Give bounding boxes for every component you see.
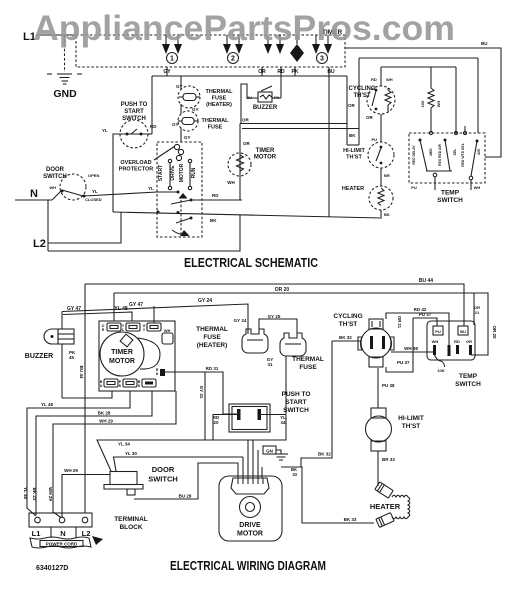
node 1 circled <box>167 53 178 64</box>
wire bus y76 <box>152 75 347 77</box>
resistor 100 ohm (schematic) <box>420 67 441 133</box>
svg-text:THERMAL: THERMAL <box>202 118 230 124</box>
wire RD drop to buzzer <box>280 67 282 98</box>
svg-text:AIR: AIR <box>477 149 481 155</box>
svg-text:SWITCH: SWITCH <box>122 116 146 122</box>
svg-text:TEMP: TEMP <box>441 190 460 197</box>
thermal fuse (schematic) <box>172 111 229 131</box>
svg-text:RD: RD <box>212 193 219 198</box>
svg-text:TH'ST: TH'ST <box>353 93 370 99</box>
timer contact diamond <box>290 35 304 62</box>
svg-text:ELECTRICAL WIRING DIAGRAM: ELECTRICAL WIRING DIAGRAM <box>170 558 326 573</box>
svg-text:WH 38: WH 38 <box>404 346 418 351</box>
buzzer (schematic) <box>246 86 279 111</box>
wire GY branch to timer tab <box>153 306 155 323</box>
svg-text:GY 24: GY 24 <box>198 298 212 304</box>
svg-text:GY 24: GY 24 <box>234 318 247 323</box>
svg-text:100: 100 <box>420 100 425 107</box>
push to start switch (schematic) <box>102 102 157 148</box>
wire PU37 <box>413 318 437 326</box>
svg-text:10K: 10K <box>437 368 444 373</box>
svg-text:YL 34: YL 34 <box>118 442 130 447</box>
wire YL48 bus <box>63 312 132 321</box>
svg-text:RED DELAY: RED DELAY <box>412 145 416 165</box>
svg-text:GY: GY <box>176 84 183 89</box>
svg-text:WH: WH <box>49 185 56 190</box>
svg-text:RD 31: RD 31 <box>206 366 219 371</box>
wire YL34 to door switch <box>97 415 286 472</box>
thermal fuse heater (schematic) <box>176 76 233 108</box>
svg-text:MOTOR: MOTOR <box>109 358 135 365</box>
wire BU28 from door switch <box>134 463 238 499</box>
overload protector label <box>119 144 184 172</box>
cycling thermostat (wiring) <box>333 313 394 367</box>
drive motor (wiring) <box>219 476 282 541</box>
wire OR20 to timer tab <box>113 293 115 321</box>
wire heater return <box>281 467 374 523</box>
svg-text:THERMAL: THERMAL <box>292 356 324 363</box>
svg-text:PUSH TO: PUSH TO <box>121 102 148 108</box>
svg-text:DOOR: DOOR <box>152 465 175 474</box>
wire drop to start switch <box>151 76 153 134</box>
svg-text:RES RED AIR: RES RED AIR <box>438 144 442 166</box>
svg-text:3: 3 <box>320 56 324 63</box>
svg-text:WH: WH <box>436 101 441 108</box>
wire color labels under timer <box>163 69 335 75</box>
wire mid vertical x347 <box>346 76 348 145</box>
svg-text:DEL: DEL <box>453 149 457 156</box>
wire start switch left to bus <box>213 415 238 441</box>
wire main lower bus y217 <box>113 212 382 218</box>
wire buzzer left <box>241 84 258 124</box>
timer motor (schematic) <box>227 148 277 185</box>
svg-text:BU 44: BU 44 <box>419 278 433 284</box>
wire PK to timer tab <box>62 391 112 398</box>
svg-text:L1: L1 <box>32 529 41 538</box>
wire fuse to motor box <box>180 128 182 142</box>
wires into drive motor connector <box>242 457 244 478</box>
svg-text:PU 37: PU 37 <box>397 360 410 365</box>
svg-text:YL: YL <box>92 189 98 194</box>
wire hi-limit to heater <box>380 168 382 186</box>
wire PK drop <box>294 67 296 76</box>
buzzer (wiring) <box>25 329 74 360</box>
svg-text:PU: PU <box>411 185 417 190</box>
svg-text:TIMER: TIMER <box>256 148 275 154</box>
wire motor to timer motor <box>191 199 242 201</box>
svg-text:BK: BK <box>384 212 390 217</box>
heater (schematic) <box>342 186 393 210</box>
svg-text:PU 37: PU 37 <box>419 312 432 317</box>
svg-text:OR 20: OR 20 <box>492 325 497 339</box>
wire BR33 hi-limit to heater <box>377 451 379 486</box>
wire OR bus y123 <box>240 123 347 125</box>
svg-text:GY 47: GY 47 <box>67 306 81 312</box>
wire GY47-GY24 bus <box>62 304 248 334</box>
power cord <box>30 536 103 548</box>
svg-text:45: 45 <box>69 355 75 360</box>
svg-text:34: 34 <box>280 420 286 425</box>
wire GY drop <box>166 67 168 76</box>
svg-text:YL 30: YL 30 <box>125 451 137 456</box>
svg-text:BK: BK <box>349 133 356 138</box>
svg-text:20: 20 <box>213 420 219 425</box>
wire WH29 timer branch <box>53 391 176 518</box>
wire BK32 to cycling <box>332 340 361 342</box>
wire OR20 bus <box>114 293 488 355</box>
svg-text:SWITCH: SWITCH <box>148 475 178 484</box>
svg-text:PUSH TO: PUSH TO <box>282 391 311 398</box>
node 3 circled <box>317 53 328 64</box>
svg-text:GY: GY <box>192 107 199 112</box>
wire start switch left drop <box>113 134 121 212</box>
wire BU44 top bus <box>85 284 464 326</box>
svg-text:BR: BR <box>384 173 390 178</box>
temp switch (wiring) <box>427 321 481 388</box>
svg-text:HEATER: HEATER <box>342 186 364 192</box>
wire RD31 timer to start switch <box>165 372 238 414</box>
svg-text:HI-LIMIT: HI-LIMIT <box>343 148 365 154</box>
svg-text:SWITCH: SWITCH <box>455 381 481 388</box>
wire hi-limit feed PU38 <box>377 368 379 408</box>
wire second right bus <box>359 57 478 59</box>
wire bottom bus <box>48 215 240 251</box>
svg-text:FUSE: FUSE <box>212 96 227 102</box>
svg-text:START: START <box>124 109 144 115</box>
hi-limit thermostat (schematic) <box>343 142 394 168</box>
svg-text:K: K <box>119 384 122 388</box>
wire door switch to motor box <box>84 192 178 196</box>
svg-text:THERMAL: THERMAL <box>206 89 234 95</box>
drive motor dashed box (schematic) <box>15 84 382 251</box>
temp switch (schematic) <box>409 126 485 204</box>
svg-text:BK: BK <box>210 218 217 223</box>
svg-text:GY: GY <box>184 135 191 140</box>
svg-text:MOTOR: MOTOR <box>179 163 185 182</box>
wire L1 to timer <box>36 34 76 36</box>
svg-text:PU: PU <box>371 137 377 142</box>
wire OR21 drop to temp switch <box>473 293 475 325</box>
svg-text:MOTOR: MOTOR <box>237 531 263 538</box>
svg-text:GY 25: GY 25 <box>268 314 281 319</box>
wire start switch right up <box>147 133 152 135</box>
svg-text:RD: RD <box>454 339 460 344</box>
svg-text:RED WTD DEL: RED WTD DEL <box>461 143 465 167</box>
svg-text:TEMP: TEMP <box>459 373 478 380</box>
svg-text:GY: GY <box>172 122 179 127</box>
thermal fuse heater (wiring) <box>196 318 268 353</box>
svg-text:PU 38: PU 38 <box>382 383 395 388</box>
svg-text:OR 20: OR 20 <box>275 287 290 293</box>
timer contact 4 <box>312 35 332 54</box>
svg-text:TIMER: TIMER <box>111 349 133 356</box>
svg-text:U: U <box>100 384 103 388</box>
svg-text:BU: BU <box>481 41 488 46</box>
wire BU drop <box>328 67 330 217</box>
wire YL30 to door switch <box>114 457 244 471</box>
wire fuse2 down to start switch <box>285 356 287 414</box>
svg-text:YL 48: YL 48 <box>114 306 127 312</box>
svg-text:BK 33: BK 33 <box>344 517 357 522</box>
svg-text:ELECTRICAL SCHEMATIC: ELECTRICAL SCHEMATIC <box>184 255 318 270</box>
svg-text:OR: OR <box>243 141 251 146</box>
svg-text:START: START <box>285 399 306 406</box>
svg-text:WH: WH <box>227 180 235 185</box>
svg-text:BK 32: BK 32 <box>339 335 352 340</box>
svg-text:OR: OR <box>242 118 250 123</box>
svg-text:33: 33 <box>292 472 297 477</box>
svg-text:HI-LIMIT: HI-LIMIT <box>398 415 424 422</box>
wire door switch down <box>47 200 49 251</box>
ground symbol GND <box>47 35 82 100</box>
svg-text:WH: WH <box>164 329 171 333</box>
svg-text:(HEATER): (HEATER) <box>206 102 232 108</box>
svg-text:R: R <box>102 328 105 332</box>
heater (wiring) <box>370 482 410 527</box>
svg-text:DRIVE: DRIVE <box>170 165 176 181</box>
svg-text:L2: L2 <box>33 238 46 250</box>
svg-text:TH'ST: TH'ST <box>346 155 362 161</box>
hi-limit thermostat (wiring) <box>366 408 424 451</box>
thermal fuse (wiring) <box>267 333 324 371</box>
wire buzzer PK45 down <box>61 344 63 398</box>
wire timer motor down <box>239 124 241 201</box>
svg-text:GY 31: GY 31 <box>199 386 204 399</box>
timer motor block (wiring) <box>99 321 175 391</box>
push to start switch (wiring) <box>213 391 311 432</box>
svg-text:BK 28: BK 28 <box>98 411 111 416</box>
svg-text:DOOR: DOOR <box>46 167 65 173</box>
svg-text:BR 33: BR 33 <box>382 457 395 462</box>
svg-text:DRIVE: DRIVE <box>239 522 261 529</box>
svg-text:6340127D: 6340127D <box>36 565 68 572</box>
svg-text:WH 29: WH 29 <box>99 419 113 424</box>
svg-text:BK 23: BK 23 <box>32 488 37 501</box>
wire OR bus y146 <box>242 128 359 130</box>
svg-text:YL: YL <box>148 186 154 191</box>
wire WH29 to door switch <box>62 475 110 518</box>
svg-text:OR: OR <box>466 339 472 344</box>
svg-text:CYCLING: CYCLING <box>333 313 362 320</box>
svg-text:GN: GN <box>266 449 273 454</box>
svg-text:THERMAL: THERMAL <box>196 326 228 333</box>
wire BK32 vertical <box>301 341 332 467</box>
svg-text:RD: RD <box>371 77 377 82</box>
svg-text:PU: PU <box>435 329 441 334</box>
svg-text:YL 48: YL 48 <box>23 487 28 499</box>
svg-text:TERMINAL: TERMINAL <box>114 516 148 523</box>
wire N lead <box>15 199 52 201</box>
timer contact 1 <box>162 35 182 54</box>
wire top right bus <box>345 48 501 157</box>
svg-text:BK 32: BK 32 <box>318 452 331 457</box>
svg-text:CLOSED: CLOSED <box>85 197 102 202</box>
svg-text:FUSE: FUSE <box>203 334 221 341</box>
svg-text:SWITCH: SWITCH <box>437 197 463 204</box>
wire buzzer right <box>272 97 281 99</box>
wire BK28 timer to terminal <box>36 391 152 515</box>
wire OR to temp switch <box>470 345 472 355</box>
svg-text:K: K <box>138 384 141 388</box>
svg-text:BU: BU <box>460 329 466 334</box>
wire cycling to hi-limit <box>380 114 382 142</box>
svg-text:BUZZER: BUZZER <box>253 105 278 111</box>
wire RD42 cycling top <box>386 313 449 345</box>
wire L2 <box>48 212 121 243</box>
svg-text:OR: OR <box>366 115 374 120</box>
svg-text:BLOCK: BLOCK <box>119 524 142 531</box>
wire N to door switch <box>52 191 61 200</box>
svg-text:WH: WH <box>432 339 439 344</box>
door switch (wiring) <box>104 465 178 495</box>
svg-text:MED: MED <box>429 148 433 156</box>
svg-text:AppliancePartsPros.com: AppliancePartsPros.com <box>33 9 455 48</box>
svg-text:WH: WH <box>386 77 393 82</box>
svg-text:TH'ST: TH'ST <box>339 321 358 328</box>
svg-text:BU 44: BU 44 <box>79 366 84 379</box>
svg-text:2: 2 <box>231 56 235 63</box>
svg-text:(HEATER): (HEATER) <box>197 342 228 349</box>
svg-text:SWITCH: SWITCH <box>283 407 309 414</box>
wire cycling feed <box>380 67 382 86</box>
node 2 circled <box>228 53 239 64</box>
wire OR drop <box>261 67 263 76</box>
wire third right bus <box>381 66 456 68</box>
svg-text:GY 47: GY 47 <box>129 302 143 308</box>
svg-text:BUZZER: BUZZER <box>25 353 53 360</box>
svg-text:WH: WH <box>474 185 481 190</box>
svg-text:PROTECTOR: PROTECTOR <box>119 167 153 173</box>
svg-text:TH'ST: TH'ST <box>402 423 421 430</box>
cycling thermostat (schematic) <box>348 77 395 120</box>
svg-text:N: N <box>60 529 65 538</box>
wire WH38 cycling right <box>391 351 433 353</box>
svg-text:BU 28: BU 28 <box>179 494 192 499</box>
svg-text:N: N <box>30 188 38 200</box>
svg-text:SWITCH: SWITCH <box>43 174 67 180</box>
svg-text:FUSE: FUSE <box>208 125 223 131</box>
svg-text:21: 21 <box>475 310 480 315</box>
wire buzzer top <box>61 312 63 330</box>
svg-text:MOTOR: MOTOR <box>254 155 277 161</box>
wire YL48 left vertical <box>27 391 130 516</box>
wire GY25 between fuses <box>259 319 297 333</box>
door switch (schematic) <box>43 167 102 202</box>
svg-text:HEATER: HEATER <box>370 502 401 511</box>
terminal block <box>29 513 148 538</box>
svg-text:31: 31 <box>267 362 273 367</box>
svg-text:1: 1 <box>170 56 174 63</box>
wire BU44 left vertical to L2 <box>84 284 86 513</box>
svg-text:POWER CORD: POWER CORD <box>46 542 78 547</box>
wire heater to bus <box>380 210 382 217</box>
timer dashed box <box>76 35 345 67</box>
wire between fuses <box>180 104 182 114</box>
timer contact 2 <box>223 35 243 54</box>
svg-text:D: D <box>156 372 159 376</box>
svg-text:RUN: RUN <box>191 167 197 178</box>
svg-text:OR 21: OR 21 <box>397 316 402 329</box>
svg-text:YL: YL <box>102 128 108 133</box>
svg-text:YL 48: YL 48 <box>41 402 53 407</box>
svg-text:FUSE: FUSE <box>299 364 317 371</box>
svg-text:OR: OR <box>348 103 356 108</box>
svg-text:OVERLOAD: OVERLOAD <box>120 160 151 166</box>
timer contact 3 <box>264 35 284 54</box>
svg-text:GND: GND <box>53 88 77 100</box>
svg-text:RD: RD <box>150 124 157 129</box>
svg-text:OPEN: OPEN <box>88 173 99 178</box>
wire start switch right YL34 <box>259 414 286 416</box>
svg-text:WH 29: WH 29 <box>64 468 78 473</box>
ground GN at motor <box>263 446 288 460</box>
svg-text:START: START <box>158 165 164 181</box>
svg-text:WH 29: WH 29 <box>48 487 53 501</box>
